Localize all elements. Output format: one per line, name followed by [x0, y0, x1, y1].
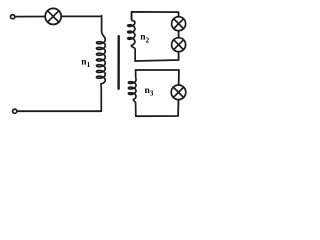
secondary coil n2 with leads: [128, 12, 136, 61]
lamp L3: [172, 38, 186, 52]
primary coil n1 with leads: [97, 16, 106, 112]
top box (secondary circuit n2): [132, 12, 179, 20]
svg-text:n1: n1: [81, 58, 90, 70]
right/bottom edge of bottom box: [136, 100, 179, 117]
lamp L4: [171, 85, 186, 100]
svg-text:n3: n3: [145, 86, 154, 98]
terminal bottom-left: [13, 109, 17, 113]
transformer core: [117, 36, 119, 89]
secondary coil n3 with leads: [128, 70, 136, 116]
wire L1 to corner and down: [61, 15, 101, 17]
wire between L2 and L3: [178, 31, 180, 38]
wire bottom to terminal: [17, 110, 101, 112]
terminal top-left: [11, 15, 15, 19]
bottom box (secondary circuit n3): [136, 70, 179, 85]
lamp L2: [172, 17, 186, 31]
lamp L1: [45, 8, 61, 24]
svg-text:n2: n2: [140, 33, 149, 45]
right/bottom edge of top box: [135, 52, 178, 61]
wire terminal to lamp L1: [15, 16, 45, 18]
